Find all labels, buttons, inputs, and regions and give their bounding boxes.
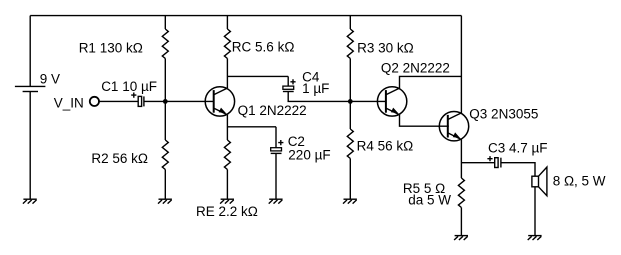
resistor R1 130k — [162, 29, 168, 58]
capacitor C1 10uF — [131, 93, 144, 107]
svg-text:R1 130 kΩ: R1 130 kΩ — [79, 41, 143, 56]
svg-text:V_IN: V_IN — [54, 96, 84, 111]
ground RE — [220, 199, 234, 203]
wire Q2 emitter to Q3 base — [400, 115, 449, 127]
svg-text:8 Ω, 5 W: 8 Ω, 5 W — [553, 174, 606, 189]
svg-text:C1 10 µF: C1 10 µF — [101, 79, 157, 94]
ground R4 — [343, 199, 357, 203]
transistor Q2 2N2222 — [377, 87, 406, 116]
node input junction — [163, 99, 168, 104]
resistor R2 56k — [162, 140, 168, 169]
capacitor C2 220uF — [271, 140, 284, 153]
ground R5 — [454, 236, 468, 240]
resistor R5 5 ohm — [458, 178, 464, 207]
wire R1 top — [164, 16, 166, 29]
svg-text:R4 56 kΩ: R4 56 kΩ — [357, 139, 414, 154]
wire C3 to speaker — [501, 163, 535, 177]
wire input to C1 — [99, 100, 138, 102]
wire emitter branch to C3 — [461, 162, 494, 164]
wire R2 top — [164, 101, 166, 140]
node V_IN terminal — [90, 97, 99, 106]
transistor Q1 2N2222 — [205, 87, 234, 116]
wire Q2 collector up and right — [400, 76, 462, 88]
svg-text:Q2 2N2222: Q2 2N2222 — [381, 60, 450, 75]
svg-text:RC 5.6 kΩ: RC 5.6 kΩ — [232, 40, 295, 55]
node R3 junction — [348, 99, 353, 104]
svg-text:RE 2.2 kΩ: RE 2.2 kΩ — [196, 204, 258, 219]
ground battery — [23, 199, 37, 203]
wire RC bottom to Q1 collector — [226, 59, 228, 89]
svg-text:C3 4.7 µF: C3 4.7 µF — [488, 141, 548, 156]
ground C2 — [269, 199, 283, 203]
ground speaker — [528, 236, 542, 240]
wire R3 bottom — [349, 59, 351, 102]
wire R4 top — [349, 101, 351, 129]
svg-text:Q3 2N3055: Q3 2N3055 — [469, 107, 538, 122]
wire Q1 emitter down — [226, 115, 228, 140]
wire top rail — [30, 15, 461, 17]
battery B1 9V — [15, 86, 46, 91]
capacitor C4 1uF — [283, 79, 296, 91]
wire emitter branch to C2 — [227, 126, 276, 128]
svg-text:Q1 2N2222: Q1 2N2222 — [238, 103, 307, 118]
svg-text:9 V: 9 V — [40, 71, 60, 86]
wire R3 top — [349, 16, 351, 29]
wire C4 bottom to Q2 base — [288, 92, 386, 102]
wire RC top — [226, 16, 228, 29]
wire Q1 collector branch to C4 — [227, 75, 288, 77]
wire R1 bottom — [164, 59, 166, 102]
ground R2 — [158, 199, 172, 203]
resistor R3 30k — [347, 29, 353, 58]
wire R4 bottom — [349, 159, 351, 200]
wire right rail — [460, 16, 462, 114]
wire R5 bottom — [460, 208, 462, 236]
wire RE bottom — [226, 170, 228, 200]
wire left rail — [29, 16, 31, 87]
svg-text:R3 30 kΩ: R3 30 kΩ — [357, 40, 414, 55]
wire battery to ground — [29, 92, 31, 200]
svg-text:220 µF: 220 µF — [288, 148, 330, 163]
wire Q3 emitter down — [460, 140, 462, 179]
wire R2 bottom — [164, 170, 166, 200]
wire speaker to ground — [534, 187, 536, 236]
svg-text:da 5 W: da 5 W — [408, 193, 451, 208]
resistor R4 56k — [347, 129, 353, 158]
speaker LS1 8 ohm — [532, 167, 547, 196]
capacitor C3 4.7uF — [487, 156, 501, 167]
resistor RE 2.2k — [224, 140, 230, 169]
wire C4 top — [287, 76, 289, 86]
transistor Q3 2N3055 — [439, 112, 468, 141]
svg-text:1 µF: 1 µF — [302, 81, 329, 96]
wire C2 top — [275, 127, 277, 148]
wire C1 to node — [144, 100, 214, 102]
svg-text:R2 56 kΩ: R2 56 kΩ — [91, 151, 148, 166]
resistor RC 5.6k — [224, 29, 230, 58]
wire C2 bottom — [275, 153, 277, 199]
